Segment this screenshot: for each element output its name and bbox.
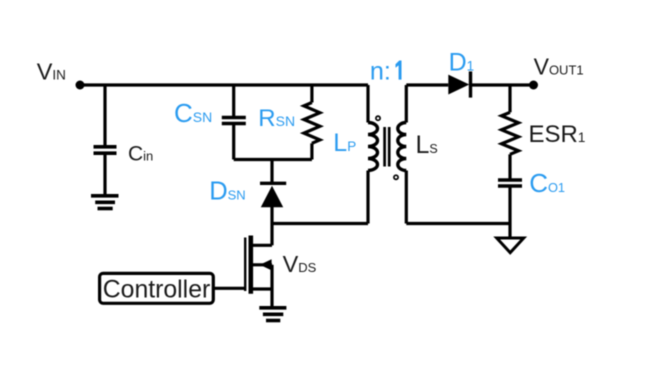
svg-text:n:: n:	[370, 58, 391, 86]
svg-text:ESR1: ESR1	[529, 121, 586, 148]
svg-text:Controller: Controller	[103, 277, 211, 304]
